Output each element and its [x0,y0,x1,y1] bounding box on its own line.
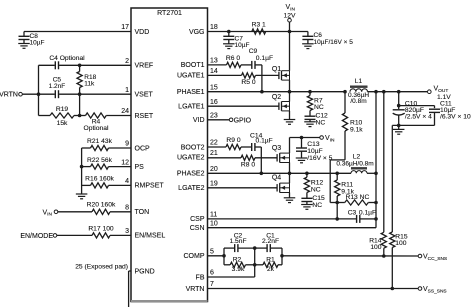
svg-text:RMPSET: RMPSET [135,183,165,190]
svg-text:0.1µF: 0.1µF [256,55,273,62]
svg-text:24: 24 [121,108,129,115]
ground C7 [223,43,235,45]
svg-text:C6: C6 [314,32,323,39]
svg-text:C9: C9 [249,48,258,55]
wire C14 to phase2 node [260,147,262,173]
svg-text:R2: R2 [233,257,242,264]
svg-text:PHASE2: PHASE2 [177,171,205,178]
svg-text:16: 16 [210,99,218,106]
svg-text:NC: NC [312,202,322,209]
ground C8 [18,43,30,45]
svg-text:TON: TON [135,209,150,216]
wire CSP pin11 [208,218,357,220]
svg-text:100: 100 [395,240,406,247]
resistor R3 [252,29,266,34]
svg-text:0.36µH/0.8m: 0.36µH/0.8m [336,160,373,167]
resistor R22 [91,164,109,169]
svg-text:FB: FB [196,274,205,281]
node GPIO terminal [229,118,233,122]
wire VRTN pin7 VSS line [208,288,419,290]
svg-text:VDD: VDD [135,29,150,36]
wire Q1 source to phase1 [289,80,291,92]
ground output caps [398,125,400,129]
resistor R2 [224,264,230,266]
svg-text:1: 1 [125,87,129,94]
wire VGG pin18 [208,31,308,33]
capacitor C1 [255,247,267,249]
svg-text:CSP: CSP [190,216,205,223]
svg-text:25 (Exposed pad): 25 (Exposed pad) [75,263,128,270]
svg-text:CSN: CSN [190,225,205,232]
wire L2 to output vertical [367,172,376,174]
wire TON pin8 [58,211,92,213]
svg-text:EN/MODE: EN/MODE [20,233,53,240]
svg-text:R8 0: R8 0 [241,161,255,168]
wire output sense vertical [375,92,377,228]
resistor R9 [226,144,241,149]
svg-text:NC: NC [311,186,321,193]
svg-text:12: 12 [121,159,129,166]
svg-text:LGATE2: LGATE2 [178,185,204,192]
svg-text:EN/MSEL: EN/MSEL [135,233,166,240]
capacitor C6 [307,32,309,37]
svg-text:BOOT2: BOOT2 [181,144,205,151]
svg-text:13: 13 [210,58,218,65]
node CS junction [336,196,338,203]
wire Q3 drain to VIN node [289,138,291,154]
svg-text:21: 21 [210,150,218,157]
svg-text:18: 18 [210,24,218,31]
wire LGATE1 pin16 [208,105,279,107]
wire BOOT1 pin13 [208,64,227,66]
svg-text:R5 0: R5 0 [241,79,255,86]
wire BOOT2 pin22 [208,146,227,148]
svg-text:BOOT1: BOOT1 [181,62,205,69]
svg-text:R11: R11 [341,182,353,189]
wire Q2 source to ground [289,111,291,120]
resistor R19 [50,113,74,118]
wire Q2 drain to phase1 [289,92,291,102]
svg-text:NC: NC [314,104,324,111]
svg-text:100: 100 [370,244,381,251]
capacitor C15 NC [306,193,308,199]
svg-text:15: 15 [210,84,218,91]
svg-text:1.2nF: 1.2nF [49,83,66,90]
svg-text:R6 0: R6 0 [226,55,240,62]
resistor R14 [383,92,385,233]
ground Q4 [284,197,296,199]
capacitor C4 optional [54,61,56,69]
svg-text:NC: NC [316,119,326,126]
svg-text:/2.5V × 4: /2.5V × 4 [405,114,432,121]
node FB junction [254,248,256,277]
svg-text:R20 160k: R20 160k [87,202,116,209]
wire VCC_SNS line [282,255,418,257]
wire Q4 drain to phase2 [289,173,291,183]
wire RSET pin24 [38,94,40,115]
svg-text:10µF: 10µF [235,42,250,49]
svg-text:10µF/16V × 5: 10µF/16V × 5 [314,39,354,46]
svg-text:R13 NC: R13 NC [346,194,370,201]
svg-text:3: 3 [125,228,129,235]
resistor R1 [255,264,263,266]
resistor R12 NC [305,172,309,176]
node VOUT terminal [428,90,432,94]
svg-text:VRTN: VRTN [0,92,18,99]
wire PHASE1 pin15 [208,91,346,93]
wire CSN pin10 [208,227,377,229]
svg-text:PS: PS [135,164,145,171]
wire C3 to output vertical [360,218,376,220]
svg-text:1.5nF: 1.5nF [229,238,246,245]
svg-text:2: 2 [125,58,129,65]
wire COMP pin5 [208,255,225,257]
wire Q4 source to ground [289,193,291,198]
svg-text:C13: C13 [307,141,320,148]
node VSS_SNS terminal [418,287,422,291]
wire OCP pin9 [109,147,132,149]
svg-text:/6.3V × 10: /6.3V × 10 [440,114,471,121]
svg-text:Q3: Q3 [272,145,281,152]
svg-text:UGATE2: UGATE2 [177,155,205,162]
wire EN/MSEL pin3 [57,234,92,236]
compensation block C2 R2 [223,248,225,265]
svg-text:R22 56k: R22 56k [87,157,113,164]
ground C6 [302,43,314,45]
svg-text:RSET: RSET [135,113,154,120]
svg-text:0.1µF: 0.1µF [359,210,376,217]
svg-text:R9 0: R9 0 [226,137,240,144]
wire VIN2 line [290,137,320,139]
svg-text:Q4: Q4 [272,175,281,182]
svg-text:2.2nF: 2.2nF [262,238,279,245]
svg-text:17: 17 [121,24,129,31]
svg-text:3.9k: 3.9k [232,266,245,273]
capacitor C13 [300,136,304,140]
wire R10 jog to CS node [344,131,346,160]
svg-text:23: 23 [210,113,218,120]
svg-text:LGATE1: LGATE1 [178,104,204,111]
svg-text:VRTN: VRTN [186,286,205,293]
wire FB pin6 [208,276,255,278]
node VCC_SNS terminal [418,254,422,258]
svg-text:11k: 11k [84,81,95,88]
node EN/MODE terminal [53,234,57,238]
wire comp block right [281,248,283,265]
svg-text:GPIO: GPIO [234,117,252,124]
svg-text:2k: 2k [267,266,275,273]
node VIN terminal phase2 [320,136,324,140]
capacitor C10 820uF [398,106,400,109]
resistor R13 NC [337,202,345,204]
svg-text:VSET: VSET [135,92,154,99]
wire RMPSET pin4 [109,184,132,186]
ground C15 [306,202,308,205]
svg-text:7: 7 [210,281,214,288]
svg-text:9: 9 [125,141,129,148]
wire R18 to RSET rail [78,92,82,96]
svg-text:VID: VID [193,117,205,124]
svg-text:9.1k: 9.1k [350,127,363,134]
svg-text:R3 1: R3 1 [252,22,266,29]
svg-text:15k: 15k [57,120,68,127]
svg-text:R16 160k: R16 160k [85,176,114,183]
ground left rail [76,193,88,195]
svg-text:12V: 12V [284,13,296,20]
svg-text:14: 14 [210,68,218,75]
resistor R6 [227,62,242,67]
wire UGATE1 pin14 [208,74,242,76]
IC U1 RT2701 body [131,8,208,302]
svg-text:OCP: OCP [135,145,151,152]
resistor R4 optional [86,113,107,118]
svg-text:10: 10 [210,220,218,227]
wire PGND pin25 [129,270,131,272]
resistor R16 [91,183,109,188]
wire C9 to phase1 node [261,65,263,92]
svg-text:10µF: 10µF [30,39,45,46]
ground Q2 [284,119,296,121]
svg-text:5: 5 [210,249,214,256]
svg-text:8: 8 [125,205,129,212]
svg-text:PGND: PGND [135,268,155,275]
resistor R18 [78,64,82,68]
svg-text:R10: R10 [350,120,363,127]
capacitor C8 [19,35,30,37]
svg-text:/0.8m: /0.8m [350,98,366,105]
svg-text:11: 11 [210,212,217,219]
node VRTN terminal [19,92,23,96]
svg-text:R1: R1 [266,257,275,264]
capacitor C3 [356,215,358,223]
wire PS pin12 [109,166,132,168]
svg-text:20: 20 [210,166,218,173]
svg-text:UGATE1: UGATE1 [177,73,205,80]
svg-text:L1: L1 [355,78,363,85]
wire Q3 source to phase2 [289,163,291,174]
svg-text:Optional: Optional [84,125,109,132]
svg-text:/16V × 5: /16V × 5 [307,155,332,162]
svg-text:4: 4 [125,178,129,185]
capacitor C12 NC [309,111,311,117]
ground C12 [309,119,311,121]
node VIN 12V terminal [288,18,292,22]
wire VIN vertical to Q1 drain [289,22,291,31]
svg-text:COMP: COMP [184,253,205,260]
svg-text:Q2: Q2 [272,94,281,101]
resistor R11 [335,172,339,176]
resistor R20 [92,209,110,214]
resistor R15 [390,232,395,248]
wire VDD pin17 [24,31,131,33]
svg-text:RT2701: RT2701 [157,10,182,17]
wire VSET pin1 [23,93,55,95]
svg-text:Q1: Q1 [272,66,281,73]
svg-text:R19: R19 [56,106,69,113]
svg-text:10µF: 10µF [307,148,322,155]
wire cap bottom bus [392,124,434,126]
svg-text:R21 43k: R21 43k [87,138,113,145]
wire VOUT to C10 C11 [398,92,400,106]
wire VID pin23 to GPIO [208,119,230,121]
ground C13 [296,157,308,159]
wire L1 to VOUT [368,91,428,93]
svg-text:C3: C3 [348,210,357,217]
svg-text:VGG: VGG [189,29,205,36]
svg-text:19: 19 [210,181,218,188]
wire PHASE2 pin20 [208,172,352,174]
resistor R7 NC [308,90,312,94]
resistor R8 [241,155,255,160]
svg-text:C4 Optional: C4 Optional [49,55,85,62]
capacitor C2 [234,244,236,252]
wire UGATE2 pin21 [208,157,242,159]
resistor R21 [91,145,109,150]
svg-text:0.1µF: 0.1µF [256,137,273,144]
wire VREF pin2 [59,64,131,66]
svg-text:6: 6 [210,270,214,277]
capacitor C11 10uF [429,108,440,110]
wire LGATE2 pin19 [208,187,278,189]
capacitor C9 [251,61,253,69]
capacitor C7 [227,30,231,34]
svg-text:R17 100: R17 100 [88,225,114,232]
svg-text:22: 22 [210,140,218,147]
resistor R5 [242,73,256,78]
node VIN terminal TON [54,210,58,214]
capacitor C14 [251,143,253,151]
svg-text:PHASE1: PHASE1 [177,89,205,96]
capacitor C5 [54,90,56,98]
resistor R10 [344,92,346,113]
svg-text:VREF: VREF [135,63,154,70]
resistor R17 [92,233,110,238]
